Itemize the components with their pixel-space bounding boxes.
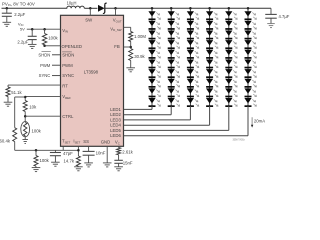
svg-text:1.00M: 1.00M xyxy=(134,34,146,39)
svg-text:LED3: LED3 xyxy=(110,117,121,122)
svg-text:VOUT: VOUT xyxy=(113,18,122,24)
svg-text:SHDN: SHDN xyxy=(38,52,50,57)
svg-text:100k: 100k xyxy=(40,158,50,163)
svg-text:2.2µF: 2.2µF xyxy=(14,12,25,17)
svg-text:LT3598: LT3598 xyxy=(84,70,99,75)
svg-text:PWM: PWM xyxy=(62,63,73,68)
svg-text:LED1: LED1 xyxy=(110,107,121,112)
svg-text:30.9k: 30.9k xyxy=(134,54,145,59)
svg-text:GND: GND xyxy=(101,140,111,145)
svg-text:15nF: 15nF xyxy=(123,160,133,165)
svg-text:CTRL: CTRL xyxy=(62,114,74,119)
svg-text:TSET: TSET xyxy=(62,139,70,145)
svg-text:FB: FB xyxy=(114,44,120,49)
svg-text:SYNC: SYNC xyxy=(39,73,51,78)
svg-text:100k: 100k xyxy=(32,128,42,133)
svg-text:ISET: ISET xyxy=(73,139,80,145)
svg-text:47pF: 47pF xyxy=(63,151,73,156)
svg-text:VC: VC xyxy=(115,140,120,146)
svg-text:SHDN: SHDN xyxy=(62,52,74,57)
svg-text:VREF: VREF xyxy=(62,94,71,100)
svg-text:4.7µF: 4.7µF xyxy=(279,14,290,19)
svg-text:SS: SS xyxy=(83,139,89,144)
svg-text:10µH: 10µH xyxy=(67,0,77,5)
svg-text:3598 TA01b: 3598 TA01b xyxy=(233,138,246,141)
svg-text:PVIN, 8V TO 40V: PVIN, 8V TO 40V xyxy=(2,1,35,7)
svg-text:14.7k: 14.7k xyxy=(64,159,75,164)
svg-text:51.1k: 51.1k xyxy=(11,90,22,95)
svg-text:5V: 5V xyxy=(20,26,25,31)
svg-text:PWM: PWM xyxy=(40,63,51,68)
svg-text:100k: 100k xyxy=(48,35,58,40)
svg-text:10k: 10k xyxy=(29,105,37,110)
svg-text:10nF: 10nF xyxy=(96,151,106,156)
svg-text:2.61k: 2.61k xyxy=(122,149,133,154)
svg-text:2.2µF: 2.2µF xyxy=(17,39,28,44)
svg-text:LED5: LED5 xyxy=(110,128,121,133)
svg-text:60.4k: 60.4k xyxy=(0,138,11,143)
svg-text:LED6: LED6 xyxy=(110,133,121,138)
svg-text:SW: SW xyxy=(85,18,93,23)
svg-text:VD_SW: VD_SW xyxy=(110,26,121,32)
svg-text:RT: RT xyxy=(62,83,68,88)
svg-text:OPENLED: OPENLED xyxy=(62,44,83,49)
svg-text:20mA: 20mA xyxy=(254,118,265,123)
svg-text:SYNC: SYNC xyxy=(62,73,74,78)
svg-text:VIN: VIN xyxy=(62,28,68,34)
